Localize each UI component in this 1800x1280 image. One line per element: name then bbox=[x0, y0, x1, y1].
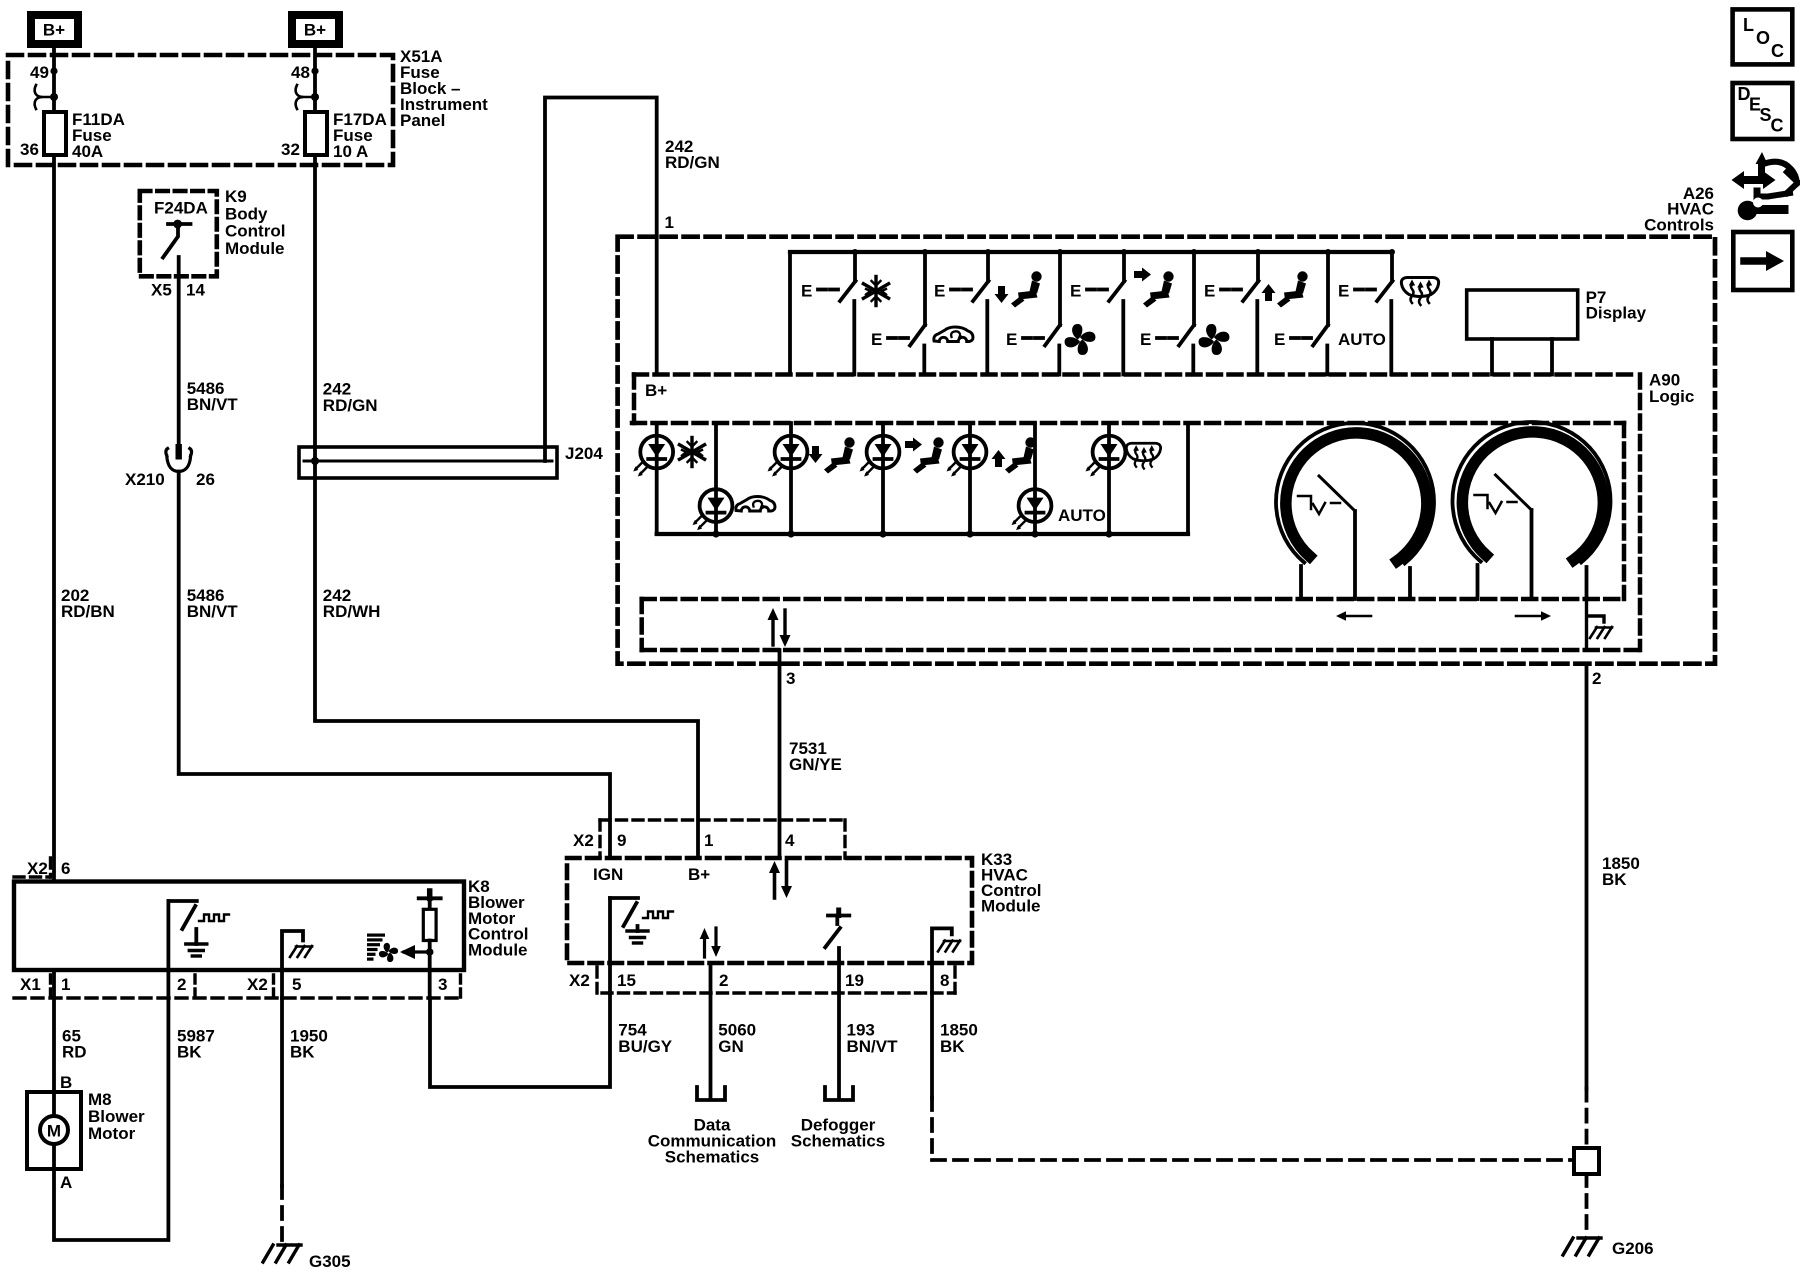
fuse F11DA 40A bbox=[44, 112, 66, 155]
svg-text:4: 4 bbox=[785, 831, 795, 850]
svg-text:AUTO: AUTO bbox=[1338, 330, 1386, 349]
svg-text:X2: X2 bbox=[27, 859, 48, 878]
svg-text:Body: Body bbox=[225, 204, 268, 223]
wire K9 to X210 bbox=[177, 257, 181, 445]
svg-text:F24DA: F24DA bbox=[154, 199, 208, 218]
ground G305 bbox=[263, 1245, 301, 1262]
node pin 49 bbox=[50, 67, 57, 74]
svg-text:J204: J204 bbox=[565, 444, 603, 463]
svg-text:3: 3 bbox=[786, 669, 795, 688]
battery feed B+ terminal 1 bbox=[27, 11, 82, 48]
LED D4 mid vent indicator bbox=[860, 423, 944, 538]
wire 242 RD/GN fuse F17DA to splice J204 bbox=[313, 155, 317, 447]
fuse F17DA 10A bbox=[305, 112, 327, 155]
svg-text:48: 48 bbox=[291, 63, 310, 82]
switch S5 vent mid (seat right-arrow) bbox=[1087, 252, 1125, 375]
LED D7 defrost indicator bbox=[1086, 423, 1161, 538]
svg-text:C: C bbox=[1771, 116, 1784, 136]
svg-text:BN/VT: BN/VT bbox=[847, 1037, 899, 1056]
svg-text:Control: Control bbox=[225, 222, 285, 241]
dial1 direction arrow left bbox=[1345, 615, 1371, 618]
svg-text:G206: G206 bbox=[1612, 1239, 1654, 1258]
wire 5486 BN/VT X210 to K33 IGN bbox=[179, 472, 610, 859]
switch S7 vent up (seat up-arrow) bbox=[1221, 252, 1259, 375]
svg-text:2: 2 bbox=[177, 975, 186, 994]
switch S4 fan 1 bbox=[1023, 252, 1060, 375]
off-page bracket data communication bbox=[697, 1087, 725, 1100]
resistor element inside K8 bbox=[419, 891, 441, 970]
fuse clip terminal at F11DA bbox=[35, 85, 54, 109]
serial data arrows at pin 4 bbox=[775, 861, 787, 898]
switch S1 A/C (snowflake) bbox=[818, 252, 856, 375]
svg-text:2: 2 bbox=[1592, 669, 1601, 688]
svg-text:O: O bbox=[1756, 28, 1770, 48]
connector X2 top of K8 bbox=[14, 858, 51, 877]
svg-text:19: 19 bbox=[845, 971, 864, 990]
wire 65 RD K8 pin1 to blower motor bbox=[52, 998, 56, 1092]
svg-text:Panel: Panel bbox=[400, 111, 445, 130]
svg-text:E: E bbox=[1204, 282, 1215, 301]
svg-text:8: 8 bbox=[940, 971, 949, 990]
svg-text:B: B bbox=[60, 1073, 72, 1092]
svg-text:BN/VT: BN/VT bbox=[187, 395, 239, 414]
switch to ground with PWM inside K8 bbox=[168, 901, 196, 970]
svg-text:1: 1 bbox=[704, 831, 713, 850]
off-page bracket defogger bbox=[825, 1087, 853, 1100]
LED D1 A/C indicator bbox=[633, 423, 704, 534]
svg-text:36: 36 bbox=[20, 140, 39, 159]
svg-text:9: 9 bbox=[617, 831, 626, 850]
svg-text:32: 32 bbox=[281, 140, 300, 159]
svg-text:Schematics: Schematics bbox=[791, 1132, 886, 1151]
blower motor control module K8 box bbox=[14, 882, 464, 971]
svg-text:15: 15 bbox=[617, 971, 636, 990]
svg-text:Module: Module bbox=[225, 239, 285, 258]
ground G206 bbox=[1563, 1238, 1601, 1255]
svg-text:X2: X2 bbox=[569, 971, 590, 990]
svg-text:26: 26 bbox=[196, 470, 215, 489]
dial2 direction arrow right bbox=[1516, 615, 1542, 618]
wire 5987 BK motor return to K8 pin2 bbox=[54, 998, 168, 1240]
LED return bus bbox=[657, 532, 1188, 536]
rotary encoder dial 2 bbox=[1452, 422, 1610, 599]
chassis ground inside K8 bbox=[282, 931, 303, 970]
wire 7531 GN/YE A90 pin3 to K33 pin4 bbox=[778, 650, 782, 858]
svg-text:BK: BK bbox=[177, 1043, 202, 1062]
wire 202 RD/BN fuse F11DA to K8 module bbox=[52, 155, 56, 882]
svg-text:G305: G305 bbox=[309, 1252, 351, 1271]
serial data arrows in A90 bbox=[773, 610, 785, 645]
splice pack J204 bbox=[299, 447, 557, 478]
svg-text:E: E bbox=[801, 282, 812, 301]
svg-text:6: 6 bbox=[61, 859, 70, 878]
inline connector at G206 bbox=[1574, 1148, 1599, 1174]
logic module A90 box bbox=[632, 375, 1640, 651]
wire B+ to fuse F11DA bbox=[52, 48, 56, 112]
svg-text:1: 1 bbox=[665, 213, 674, 232]
wire B+ to fuse F17DA bbox=[313, 48, 317, 112]
wire 242 RD/GN J204 up to A26 pin 1 bbox=[545, 98, 657, 448]
LED D2 recirculation indicator bbox=[693, 423, 776, 538]
wire pin1 to A90 B+ bbox=[655, 237, 659, 375]
svg-text:K9: K9 bbox=[225, 187, 247, 206]
svg-text:GN: GN bbox=[718, 1037, 744, 1056]
fuse block X51A box bbox=[8, 55, 393, 165]
connector X2 bottom of K33 bbox=[597, 967, 955, 993]
rotary encoder dial 1 bbox=[1276, 423, 1434, 599]
svg-text:AUTO: AUTO bbox=[1058, 506, 1106, 525]
svg-text:B+: B+ bbox=[645, 381, 667, 400]
svg-text:E: E bbox=[1274, 330, 1285, 349]
serial data arrows at pin 2 bbox=[705, 928, 717, 957]
wire 1950 BK K8 pin5 to G305 bbox=[280, 998, 284, 1186]
svg-text:B+: B+ bbox=[304, 21, 326, 40]
wire 1850 BK A90 pin2 to G206 bbox=[1585, 664, 1589, 1089]
sidebar icon data-routing arrows with wrench bbox=[1732, 152, 1799, 220]
HVAC controls A26 box bbox=[618, 237, 1715, 664]
wire 754 BU/GY K33 pin15 to K8 pin3 bbox=[430, 993, 610, 1087]
svg-text:X210: X210 bbox=[125, 470, 165, 489]
svg-text:RD: RD bbox=[62, 1043, 87, 1062]
svg-text:E: E bbox=[1140, 330, 1151, 349]
svg-text:Controls: Controls bbox=[1644, 216, 1714, 235]
svg-text:GN/YE: GN/YE bbox=[789, 755, 842, 774]
HVAC control module K33 box bbox=[567, 858, 972, 963]
fuse clip terminal at F17DA bbox=[296, 85, 315, 109]
svg-text:E: E bbox=[934, 282, 945, 301]
svg-text:X5: X5 bbox=[151, 281, 172, 300]
connector X2 top of K33 bbox=[600, 820, 845, 858]
svg-text:BK: BK bbox=[940, 1037, 965, 1056]
wire pins through connector bbox=[610, 963, 932, 993]
switch S9 defrost bbox=[1355, 252, 1393, 375]
wire 242 RD/WH J204 to K33 B+ bbox=[315, 478, 698, 858]
inline connector X210 pin 26 bbox=[166, 444, 192, 472]
svg-text:X2: X2 bbox=[573, 831, 594, 850]
svg-text:E: E bbox=[1006, 330, 1017, 349]
sidebar icon DESC bbox=[1733, 83, 1793, 139]
fan symbol inside K8 bbox=[377, 941, 399, 963]
svg-text:RD/BN: RD/BN bbox=[61, 602, 115, 621]
wire 5060 GN to data link bbox=[709, 993, 713, 1098]
svg-text:RD/WH: RD/WH bbox=[323, 602, 381, 621]
LED D6 AUTO indicator bbox=[1012, 423, 1106, 538]
svg-text:BK: BK bbox=[290, 1043, 315, 1062]
blower speed ramp bbox=[367, 934, 385, 961]
wire 193 BN/VT to defogger bbox=[837, 993, 841, 1098]
svg-text:Display: Display bbox=[1586, 304, 1647, 323]
svg-text:BU/GY: BU/GY bbox=[618, 1037, 673, 1056]
wire bus left leg bbox=[788, 252, 792, 375]
svg-text:E: E bbox=[1070, 282, 1081, 301]
display P7 bbox=[1467, 290, 1578, 375]
svg-text:B+: B+ bbox=[688, 865, 710, 884]
wire LED bus return bbox=[1186, 423, 1190, 534]
svg-text:3: 3 bbox=[438, 975, 447, 994]
svg-text:M: M bbox=[47, 1122, 61, 1141]
node pin 48 bbox=[311, 67, 318, 74]
chassis ground at pin 8 bbox=[932, 928, 952, 963]
svg-text:10 A: 10 A bbox=[333, 142, 368, 161]
sidebar icon forward arrow bbox=[1733, 232, 1792, 290]
svg-text:L: L bbox=[1743, 15, 1754, 35]
switch F24DA inside K9 bbox=[163, 224, 191, 258]
svg-text:B+: B+ bbox=[43, 21, 65, 40]
svg-text:2: 2 bbox=[719, 971, 728, 990]
sidebar icon LOC bbox=[1733, 9, 1793, 64]
svg-text:5: 5 bbox=[292, 975, 301, 994]
defogger switch at pin 19 bbox=[825, 910, 849, 963]
switch S6 fan 2 bbox=[1157, 252, 1194, 375]
svg-text:BN/VT: BN/VT bbox=[187, 602, 239, 621]
blower motor M8 bbox=[27, 1092, 81, 1169]
svg-text:E: E bbox=[1338, 282, 1349, 301]
svg-text:X2: X2 bbox=[247, 975, 268, 994]
switch S2 recirculation (car) bbox=[888, 252, 925, 375]
svg-text:C: C bbox=[1771, 41, 1784, 61]
svg-text:Module: Module bbox=[468, 941, 528, 960]
svg-text:14: 14 bbox=[186, 281, 205, 300]
svg-text:RD/GN: RD/GN bbox=[665, 153, 720, 172]
svg-text:A: A bbox=[60, 1173, 72, 1192]
svg-text:Motor: Motor bbox=[88, 1124, 136, 1143]
LED D5 up vent indicator bbox=[947, 423, 1036, 538]
svg-text:40A: 40A bbox=[72, 142, 103, 161]
switch S8 AUTO bbox=[1291, 252, 1328, 375]
svg-text:E: E bbox=[871, 330, 882, 349]
LED D3 floor vent indicator bbox=[768, 423, 855, 538]
switch S3 vent floor (seat down) bbox=[951, 252, 989, 375]
battery feed B+ terminal 2 bbox=[288, 11, 343, 48]
switch to ground with PWM inside K33 bbox=[610, 898, 638, 963]
svg-text:IGN: IGN bbox=[593, 865, 623, 884]
svg-text:Module: Module bbox=[981, 897, 1041, 916]
connector X1/X2 bottom of K8 bbox=[14, 975, 464, 998]
svg-text:RD/GN: RD/GN bbox=[323, 396, 378, 415]
wire pins through K8 connector bbox=[54, 970, 430, 998]
svg-text:Logic: Logic bbox=[1649, 387, 1694, 406]
svg-text:BK: BK bbox=[1602, 870, 1627, 889]
body control module K9 box bbox=[140, 191, 217, 276]
svg-text:Schematics: Schematics bbox=[665, 1148, 760, 1167]
svg-text:1: 1 bbox=[61, 975, 70, 994]
ground hook inside A90 bbox=[1587, 599, 1605, 650]
svg-text:X1: X1 bbox=[20, 975, 41, 994]
switch supply bus bbox=[790, 250, 1392, 254]
svg-text:49: 49 bbox=[30, 63, 49, 82]
wire 1850 BK K33 pin8 to G206 bbox=[930, 993, 934, 1098]
feedback arrow to fan bbox=[404, 950, 430, 953]
